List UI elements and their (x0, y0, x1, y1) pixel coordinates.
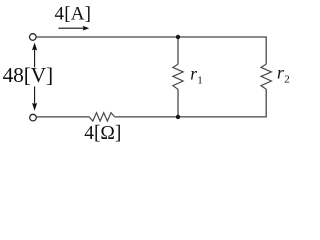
terminal bottom-left (30, 114, 37, 121)
voltage arrowhead down (32, 103, 37, 111)
voltage arrowhead up (32, 43, 37, 51)
svg-text:1: 1 (197, 74, 203, 86)
svg-text:4[A]: 4[A] (55, 3, 92, 24)
resistor r1 zigzag (173, 64, 183, 89)
resistor r2 zigzag (261, 64, 271, 89)
terminal top-left (30, 34, 37, 41)
top wire (37, 36, 267, 38)
junction node bottom (r1) (176, 115, 180, 119)
wire r1 branch bottom (177, 89, 179, 117)
bottom wire right segment (115, 116, 267, 118)
bottom wire left segment (37, 116, 90, 118)
svg-text:4[Ω]: 4[Ω] (84, 123, 121, 144)
white mask behind 48[V] (2, 67, 56, 86)
svg-text:48[V]: 48[V] (3, 63, 53, 87)
current arrow shaft (58, 27, 83, 29)
svg-text:r: r (277, 63, 284, 83)
voltage arrow shaft (34, 49, 36, 105)
current arrowhead right (83, 26, 90, 31)
wire right edge top (to r2) (265, 36, 267, 64)
wire r1 branch top (177, 37, 179, 64)
svg-text:2: 2 (284, 73, 290, 85)
resistor 4[Ω] zigzag (89, 113, 115, 121)
junction node top (r1) (176, 35, 180, 39)
wire right edge bottom (from r2) (265, 89, 267, 117)
